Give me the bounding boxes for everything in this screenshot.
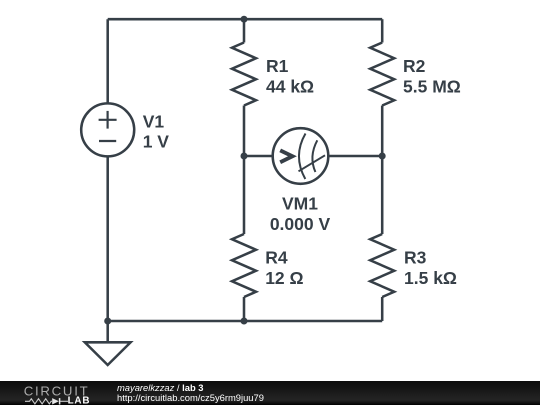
- voltmeter VM1 body: [273, 128, 329, 184]
- wire R3 bottom lead: [381, 297, 384, 321]
- resistor R2: [370, 43, 394, 106]
- voltmeter VM1 scale arc right: [312, 140, 317, 172]
- wire top horizontal: [108, 18, 383, 21]
- svg-text:R3: R3: [404, 248, 427, 268]
- wire left column upper (top rail to V1): [106, 19, 109, 103]
- node junction ground: [104, 318, 111, 325]
- voltage source V1 body: [81, 103, 134, 156]
- svg-text:5.5 MΩ: 5.5 MΩ: [403, 76, 461, 96]
- wire left column lower (V1 to ground node): [106, 157, 109, 321]
- wire ground stem: [106, 321, 109, 342]
- svg-text:1 V: 1 V: [143, 131, 170, 151]
- logo resistor zigzag: [25, 399, 52, 404]
- wire R4 top lead: [243, 156, 246, 234]
- svg-text:12 Ω: 12 Ω: [265, 268, 303, 288]
- wire VM1 right lead: [328, 155, 382, 158]
- ground symbol: [85, 342, 131, 365]
- wire R1 top lead: [243, 19, 246, 42]
- svg-text:0.000 V: 0.000 V: [270, 214, 331, 234]
- wire R4 bottom lead: [243, 297, 246, 321]
- voltage source V1 plus terminal: [99, 111, 117, 129]
- logo diode: [52, 398, 59, 404]
- svg-text:44 kΩ: 44 kΩ: [266, 76, 314, 96]
- resistor R4: [232, 234, 256, 297]
- node junction mid right: [379, 153, 386, 160]
- svg-text:R2: R2: [403, 56, 426, 76]
- svg-text:VM1: VM1: [282, 194, 318, 214]
- wire R3 top lead: [381, 156, 384, 234]
- wire R2 bottom lead: [381, 106, 384, 157]
- voltage source V1 minus terminal: [99, 140, 116, 142]
- voltmeter VM1 scale arc left: [299, 134, 306, 180]
- svg-text:V1: V1: [143, 111, 165, 131]
- footer bar: [0, 381, 540, 405]
- svg-text:LAB: LAB: [68, 395, 91, 405]
- wire R2 top lead: [381, 19, 384, 42]
- node junction top rail / R1: [241, 16, 248, 23]
- CircuitLab logo: [0, 381, 110, 405]
- svg-text:1.5 kΩ: 1.5 kΩ: [404, 268, 457, 288]
- svg-text:R1: R1: [266, 56, 289, 76]
- wire VM1 left lead: [244, 155, 273, 158]
- voltmeter VM1 needle: [299, 155, 326, 171]
- node junction mid left: [241, 153, 248, 160]
- voltmeter VM1 chevron: [280, 150, 292, 162]
- resistor R3: [370, 234, 394, 297]
- node junction bottom R4: [241, 318, 248, 325]
- svg-text:R4: R4: [265, 248, 288, 268]
- resistor R1: [232, 43, 256, 106]
- wire bottom horizontal: [108, 320, 383, 323]
- footer attribution text: [117, 383, 264, 404]
- wire R1 bottom lead: [243, 106, 246, 157]
